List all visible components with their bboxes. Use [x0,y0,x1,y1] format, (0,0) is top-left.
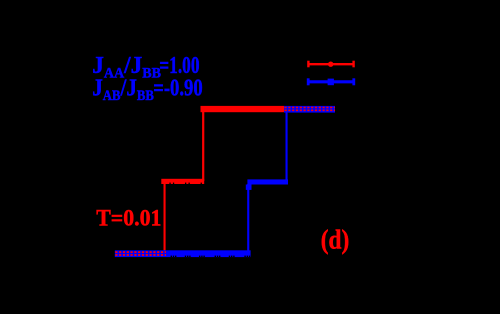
red curve: top plateau y=109 (x 200.5..284) [201,106,285,112]
label J_AB/J_BB=-0.90 [92,74,154,103]
dash gaps on red middle plateau [169,183,202,184]
blue curve: middle plateau y=182 (x 247.5..288) [247,179,288,184]
overlap segment bottom-left: blue dashed over red (x 115..166) [115,250,166,257]
blue square marker at step corner [246,185,252,190]
blue curve: bottom plateau y=253.6 (x 166..250.6) [166,250,251,257]
red curve: vertical step x=203 (y 109..181) [202,109,204,181]
label T=0.01 [96,205,161,231]
label (d) [321,226,349,255]
red curve: middle plateau y=181 (x 161.5..204) [161,179,204,184]
blue curve: vertical step x=248.2 (y 184..253) [247,184,249,254]
overlap segment top-right: blue dashed over red (x 284..335) [284,106,335,113]
red curve: vertical step x=164 (y 181..253) [164,181,166,253]
legend red errorbar line [307,61,355,68]
label J_AA/J_BB=1.00 [92,52,161,81]
legend blue errorbar line [307,78,355,85]
dash gaps on blue bottom plateau [171,256,251,258]
svg-text:=-0.90: =-0.90 [153,74,202,101]
svg-text:(d): (d) [321,226,349,255]
blue curve: vertical step x=286.6 (y 112..181) [286,112,288,182]
svg-text:T=0.01: T=0.01 [96,205,161,231]
